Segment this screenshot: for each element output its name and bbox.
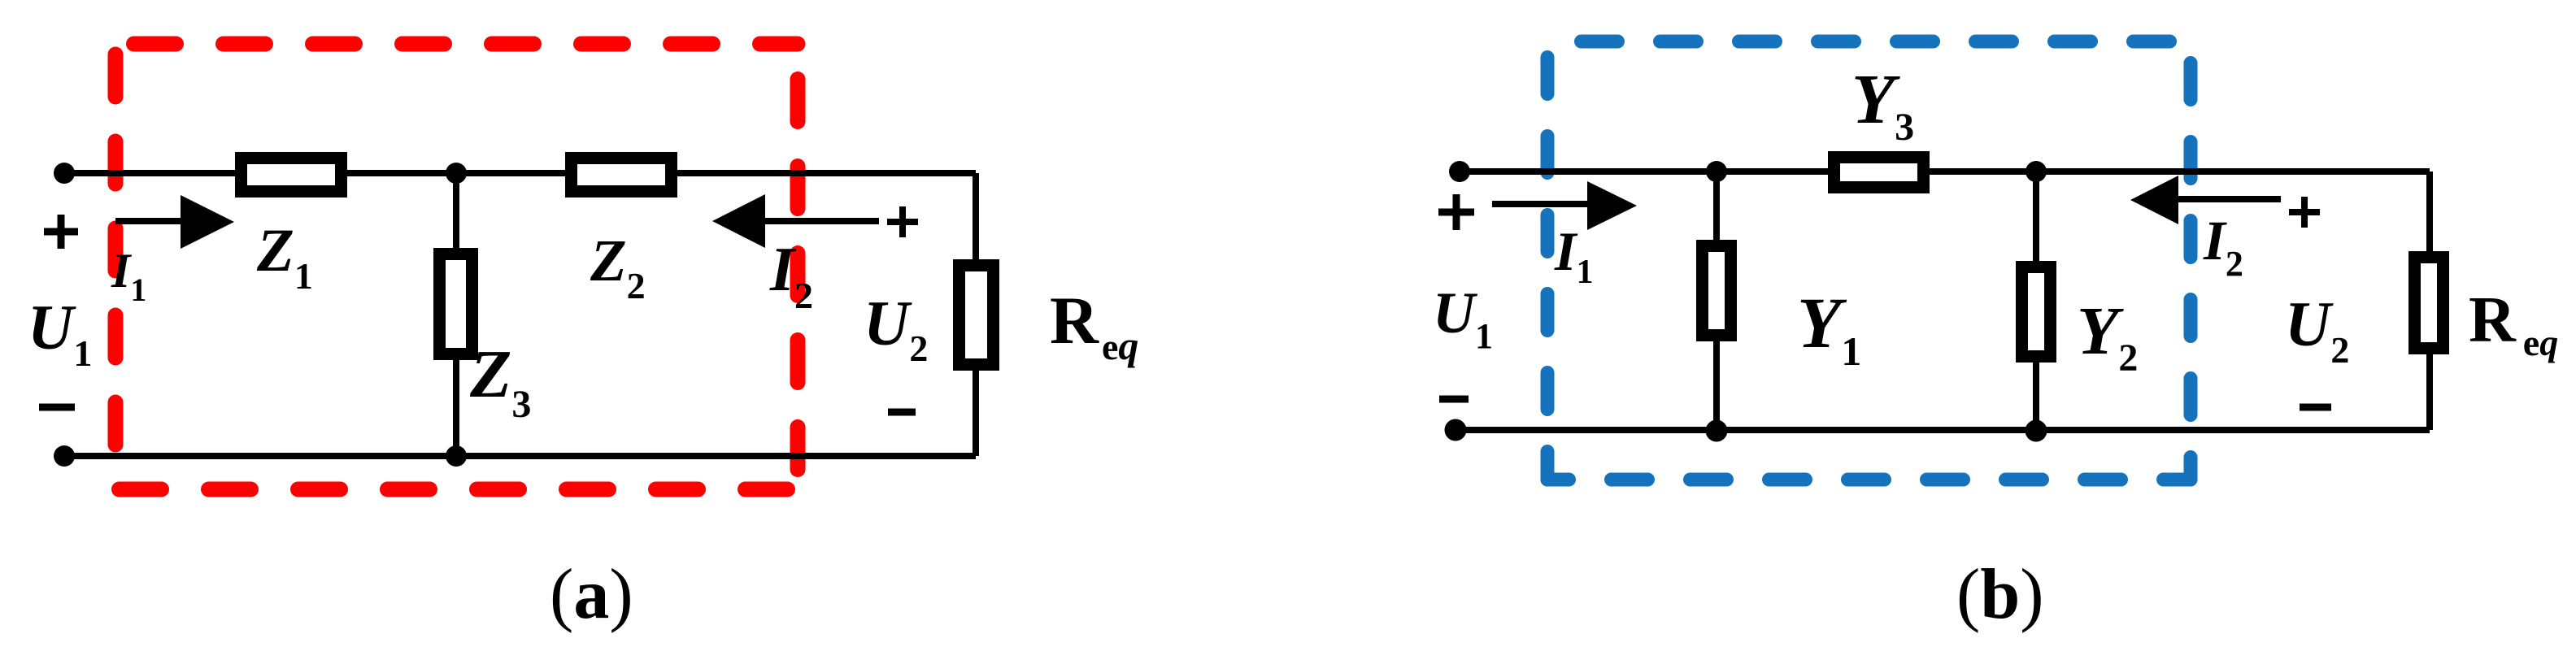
svg-text:Y1: Y1	[1797, 284, 1861, 374]
svg-text:U1: U1	[28, 292, 92, 374]
resistor Z1	[241, 158, 342, 192]
svg-text:I2: I2	[2203, 210, 2243, 284]
svg-text:(a): (a)	[550, 555, 633, 634]
resistor Y2	[2022, 267, 2051, 357]
wire: top rail (b)	[1460, 168, 2430, 175]
node: input top terminal (b)	[1449, 161, 1470, 182]
minus sign at U2 (a)	[888, 409, 916, 416]
wire: top rail (a)	[64, 170, 976, 176]
resistor Z3	[440, 254, 472, 354]
minus sign at U2 (b)	[2300, 404, 2331, 411]
svg-text:(b): (b)	[1956, 555, 2044, 634]
node: input bottom terminal (a)	[54, 445, 75, 467]
svg-text:Req: Req	[1050, 283, 1138, 368]
resistor Req (b)	[2415, 258, 2443, 349]
node: Z3 bottom junction (a)	[446, 445, 467, 467]
svg-text:U2: U2	[2285, 289, 2349, 371]
svg-text:Z2: Z2	[590, 228, 646, 306]
wire: bottom rail (b)	[1456, 427, 2430, 433]
wire: right branch (b)	[2426, 172, 2433, 430]
resistor Req (a)	[959, 266, 994, 365]
resistor Y1	[1703, 246, 1731, 336]
node: Y1 top junction (b)	[1706, 161, 1727, 182]
minus sign at U1 (a)	[39, 404, 75, 411]
wire: right branch (a)	[973, 173, 979, 456]
node: Y2 bottom junction (b)	[2026, 420, 2047, 442]
svg-text:U1: U1	[1433, 280, 1493, 356]
wire: bottom rail (a)	[64, 453, 976, 459]
node: Y2 top junction (b)	[2026, 161, 2047, 182]
wire: Y1 shunt branch (b)	[1713, 172, 1720, 430]
node: input top terminal (a)	[54, 163, 75, 184]
svg-text:Y2: Y2	[2077, 293, 2138, 380]
node: Y1 bottom junction (b)	[1706, 420, 1728, 442]
plus sign at U2 (b)	[2289, 197, 2320, 228]
svg-text:I1: I1	[1554, 220, 1593, 291]
svg-text:Req: Req	[2469, 284, 2558, 363]
svg-text:I2: I2	[769, 234, 813, 316]
plus sign at U2 (a)	[887, 206, 918, 237]
plus sign at U1 (b)	[1438, 194, 1474, 230]
minus sign at U1 (b)	[1439, 396, 1469, 403]
wire: Y2 shunt branch (b)	[2033, 172, 2039, 430]
current arrow I2 (a)	[712, 194, 879, 248]
current arrow I1 (a)	[115, 195, 234, 249]
svg-text:Z3: Z3	[469, 337, 531, 426]
svg-text:I1: I1	[111, 244, 146, 308]
wire: Z3 shunt branch (a)	[453, 173, 459, 456]
resistor Y3	[1834, 158, 1924, 188]
node: input bottom terminal (b)	[1445, 419, 1467, 441]
svg-text:U2: U2	[864, 288, 928, 369]
blue dashed two-port boundary box (b)	[1547, 41, 2191, 480]
node: Z1-Z2-Z3 junction (a)	[446, 163, 467, 184]
plus sign at U1 (a)	[44, 215, 78, 249]
current arrow I1 (b)	[1492, 181, 1637, 230]
current arrow I2 (b)	[2130, 176, 2281, 224]
svg-text:Y3: Y3	[1851, 59, 1914, 149]
red dashed two-port boundary box (a)	[115, 44, 798, 489]
svg-text:Z1: Z1	[256, 217, 313, 297]
resistor Z2	[572, 158, 672, 192]
